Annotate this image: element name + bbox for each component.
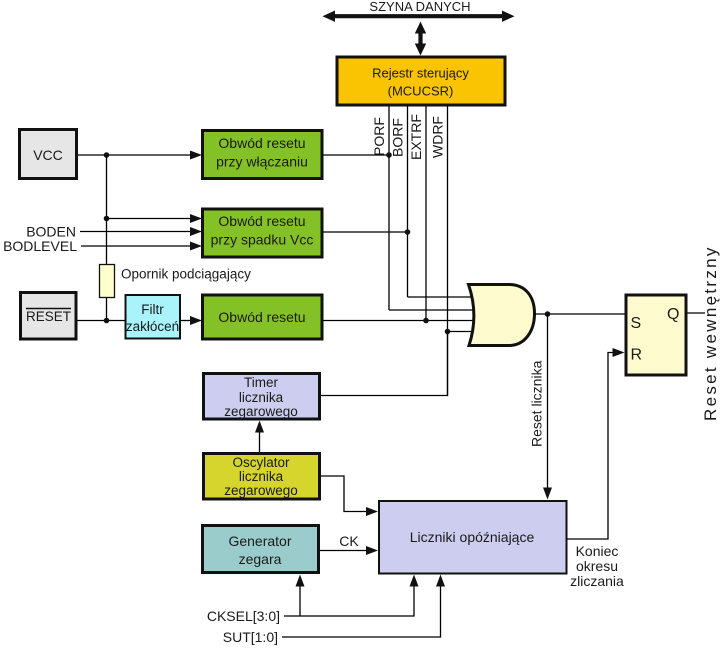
watchdog timer box <box>204 374 320 420</box>
wire WDRF to OR input <box>448 331 473 333</box>
svg-text:Liczniki opóźniające: Liczniki opóźniające <box>410 529 535 545</box>
external reset circuit box <box>203 295 323 339</box>
svg-text:WDRF: WDRF <box>430 116 446 158</box>
wire EXTRF vertical <box>425 107 427 321</box>
wire SUT to delay counters <box>282 586 441 637</box>
svg-text:Reset licznika: Reset licznika <box>529 360 545 447</box>
svg-text:CK: CK <box>339 533 359 549</box>
wire CK clock to delay counters <box>320 550 366 552</box>
svg-text:Obwód resetu: Obwód resetu <box>218 135 305 151</box>
svg-text:S: S <box>631 315 642 332</box>
wire VCC to power-on reset circuit <box>78 154 191 156</box>
wire RESET to noise filter <box>78 320 126 322</box>
wire power-on reset to PORF <box>324 154 390 156</box>
svg-text:Obwód resetu: Obwód resetu <box>218 309 305 325</box>
wire VCC rail to brown-out circuit <box>107 218 192 220</box>
wire BODEN to brown-out circuit <box>80 231 191 233</box>
svg-text:okresu: okresu <box>576 558 618 574</box>
svg-text:PORF: PORF <box>371 117 387 156</box>
clock generator box <box>203 526 319 573</box>
wire watchdog oscillator to timer <box>259 431 261 452</box>
VCC box <box>20 130 77 179</box>
wire Q output <box>688 312 706 314</box>
node brown-out junction <box>104 216 110 222</box>
data bus double-headed arrow <box>323 11 515 22</box>
OR gate U1 <box>469 285 535 346</box>
node counter reset junction <box>545 311 551 317</box>
svg-text:Generator: Generator <box>228 533 291 549</box>
svg-text:zegarowego: zegarowego <box>224 404 298 419</box>
wire brown-out reset to BORF <box>324 231 408 233</box>
wire BORF to OR input <box>408 296 473 298</box>
resistor pull-up <box>100 265 115 298</box>
svg-text:Rejestr sterujący: Rejestr sterujący <box>372 66 469 81</box>
svg-text:zliczania: zliczania <box>570 573 624 589</box>
svg-text:zakłóceń: zakłóceń <box>126 319 179 334</box>
wire WDRF vertical <box>447 107 449 396</box>
svg-text:(MCUCSR): (MCUCSR) <box>388 84 454 99</box>
svg-text:Reset wewnętrzny: Reset wewnętrzny <box>701 245 720 421</box>
wire watchdog timer to WDRF <box>321 332 448 396</box>
brown-out reset circuit box <box>203 209 323 257</box>
svg-text:przy włączaniu: przy włączaniu <box>216 154 308 170</box>
svg-text:VCC: VCC <box>33 147 63 163</box>
node RESET junction <box>104 318 110 324</box>
svg-text:BODLEVEL: BODLEVEL <box>3 238 77 254</box>
svg-text:R: R <box>631 347 643 364</box>
svg-text:SUT[1:0]: SUT[1:0] <box>223 629 278 645</box>
svg-text:BORF: BORF <box>390 118 406 157</box>
node EXTRF junction <box>423 318 429 324</box>
svg-text:Q: Q <box>667 306 679 323</box>
wire delay counters to latch R <box>567 353 620 540</box>
delay counters box <box>379 501 567 574</box>
svg-text:Obwód resetu: Obwód resetu <box>218 213 305 229</box>
register MCUCSR <box>337 57 505 105</box>
latch U2 SR <box>626 295 686 375</box>
svg-text:zegarowego: zegarowego <box>224 483 298 498</box>
power-on reset circuit box <box>203 131 323 179</box>
svg-text:EXTRF: EXTRF <box>408 114 424 160</box>
wire CKSEL to clock generator and delay counters <box>284 586 414 616</box>
wire OR output to latch S <box>535 313 627 315</box>
svg-text:Filtr: Filtr <box>141 302 164 317</box>
wire BORF vertical <box>407 107 409 298</box>
wire CKSEL branch to clock generator <box>299 586 301 616</box>
svg-text:licznika: licznika <box>239 390 284 405</box>
svg-text:RESET: RESET <box>26 309 71 324</box>
noise filter box <box>126 295 181 339</box>
svg-text:zegara: zegara <box>239 551 282 567</box>
svg-text:Opornik podciągający: Opornik podciągający <box>121 267 251 282</box>
svg-text:Timer: Timer <box>244 375 278 390</box>
svg-text:CKSEL[3:0]: CKSEL[3:0] <box>207 608 280 624</box>
label Koniec okresu zliczania <box>570 543 624 589</box>
wire VCC rail vertical <box>106 155 108 321</box>
node BORF junction <box>405 229 411 235</box>
wire noise filter to external reset circuit <box>181 320 191 322</box>
RESET input box <box>21 293 77 340</box>
svg-text:licznika: licznika <box>239 469 284 484</box>
wire watchdog oscillator to delay counters <box>321 476 366 512</box>
node WDRF junction <box>445 329 451 335</box>
svg-text:Koniec: Koniec <box>576 543 619 559</box>
svg-text:SZYNA DANYCH: SZYNA DANYCH <box>369 0 470 14</box>
watchdog oscillator box <box>204 454 320 500</box>
wire BODLEVEL to brown-out circuit <box>81 245 191 247</box>
wire external reset to OR input <box>324 320 474 322</box>
svg-text:przy spadku Vcc: przy spadku Vcc <box>211 232 314 248</box>
wire counter reset vertical <box>547 314 549 488</box>
wire PORF to OR input <box>389 309 473 311</box>
wire PORF vertical <box>388 107 390 311</box>
svg-text:Oscylator: Oscylator <box>232 455 290 470</box>
node PORF junction <box>386 152 392 158</box>
vertical bus arrow to register <box>415 22 426 56</box>
node VCC junction <box>104 152 110 158</box>
